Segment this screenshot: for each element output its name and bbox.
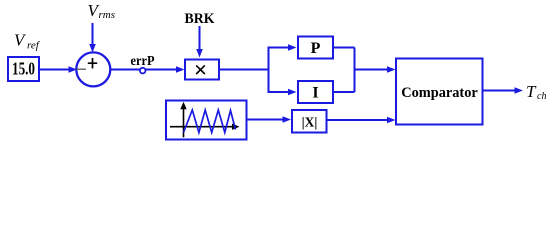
plus sign (88, 58, 97, 68)
arrowhead into P (288, 44, 297, 51)
wire P to merge (334, 47, 355, 49)
wire comparator output (483, 90, 516, 92)
block 15.0 setpoint (8, 57, 39, 81)
sawtooth generator block (166, 101, 247, 140)
svg-text:errP: errP (131, 54, 155, 69)
arrowhead output (515, 87, 524, 94)
wire abs to comparator (328, 119, 389, 121)
wire Vrms down (92, 23, 94, 46)
svg-text:ref: ref (27, 40, 41, 52)
multiply sign (196, 65, 205, 74)
label Vref (14, 31, 41, 52)
waveform vertical axis arrowhead (180, 102, 186, 110)
wire merge to comparator (355, 69, 389, 71)
waveform vertical axis (183, 107, 185, 137)
block I (298, 81, 333, 103)
arrowhead Vrms into summer (89, 44, 96, 53)
svg-text:P: P (311, 40, 321, 57)
waveform horizontal axis arrowhead (232, 124, 240, 130)
svg-text:|X|: |X| (302, 115, 318, 130)
waveform horizontal axis (170, 126, 234, 128)
minus sign (76, 68, 86, 70)
arrowhead into I (288, 89, 297, 96)
svg-text:I: I (312, 85, 318, 102)
arrowhead into comparator lower (387, 117, 396, 124)
arrowhead into abs (283, 116, 292, 123)
wire summer to multiplier (110, 69, 179, 71)
arrowhead into comparator upper (387, 66, 396, 73)
node errP (140, 68, 146, 74)
svg-text:ch: ch (537, 91, 546, 102)
merge vertical wire (354, 48, 356, 93)
svg-text:rms: rms (99, 9, 116, 21)
svg-text:BRK: BRK (185, 11, 216, 27)
svg-text:Comparator: Comparator (401, 84, 478, 101)
split vertical wire (268, 48, 270, 93)
label Vrms (88, 1, 116, 21)
comparator block (396, 59, 483, 125)
wire to I (268, 91, 292, 93)
wire sawtooth to abs (247, 119, 284, 121)
wire I to merge (334, 91, 355, 93)
wire to P (268, 47, 292, 49)
block abs |X| (292, 110, 327, 133)
summing junction (76, 52, 110, 86)
wire BRK down (199, 26, 201, 51)
wire multiplier to split (220, 69, 269, 71)
multiplier block (185, 60, 219, 80)
arrowhead into summer (69, 66, 78, 73)
svg-text:15.0: 15.0 (12, 59, 35, 79)
label Tch (526, 82, 546, 102)
triangle waveform (184, 110, 236, 133)
svg-text:T: T (526, 82, 537, 101)
arrowhead into multiplier (176, 66, 185, 73)
wire 15.0 to summer (39, 69, 70, 71)
block P (298, 37, 333, 59)
arrowhead BRK into multiplier (196, 49, 203, 58)
